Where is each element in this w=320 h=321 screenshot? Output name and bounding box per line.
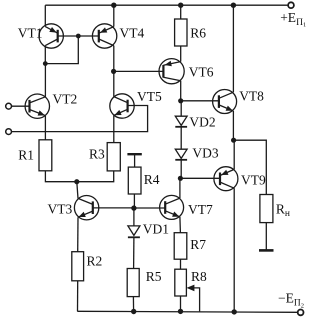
svg-text:VT4: VT4 bbox=[120, 25, 145, 40]
svg-text:VT2: VT2 bbox=[53, 91, 78, 106]
svg-text:VD1: VD1 bbox=[143, 222, 169, 237]
transistor VT4 bbox=[92, 5, 116, 71]
transistor VT3 bbox=[74, 182, 98, 252]
wire VT1 base to VT4 base bbox=[58, 35, 99, 37]
svg-text:Rн: Rн bbox=[276, 202, 290, 220]
wire R7 to R8 bbox=[180, 259, 182, 269]
transistor VT8 bbox=[213, 5, 237, 140]
wire VT4/VT5 node to VT6 base bbox=[114, 70, 164, 72]
resistor R6 bbox=[175, 19, 187, 46]
svg-text:R1: R1 bbox=[18, 148, 34, 163]
node VT3 collector bbox=[74, 179, 79, 184]
wire R5 bottom bbox=[132, 297, 134, 312]
wire R8 bottom to rail bbox=[180, 296, 182, 311]
diode VD3 bbox=[175, 149, 187, 178]
svg-text:VT1: VT1 bbox=[18, 25, 43, 40]
wire bottom rail bbox=[77, 311, 297, 312]
wire R2 bottom to rail bbox=[77, 281, 79, 312]
node VT4 emitter rail bbox=[111, 2, 116, 7]
transistor VT2 bbox=[25, 64, 49, 140]
svg-text:R6: R6 bbox=[190, 25, 206, 40]
svg-text:VT7: VT7 bbox=[188, 202, 213, 217]
terminal +Ep1 bbox=[288, 2, 294, 8]
ground bar RH bbox=[259, 249, 274, 252]
svg-text:VT8: VT8 bbox=[239, 89, 264, 104]
node R6 rail bbox=[178, 2, 183, 7]
svg-text:VD3: VD3 bbox=[192, 145, 218, 160]
resistor R2 bbox=[72, 252, 84, 281]
diode VD1 bbox=[128, 208, 140, 268]
node VD3 cathode bbox=[178, 176, 183, 181]
node output bbox=[231, 138, 236, 143]
svg-text:R7: R7 bbox=[190, 237, 206, 252]
wire input2 to VT5 base loop bbox=[12, 106, 148, 132]
svg-text:+EП1: +EП1 bbox=[280, 10, 306, 29]
wire top rail bbox=[45, 4, 287, 6]
svg-text:R8: R8 bbox=[191, 269, 207, 284]
transistor VT6 bbox=[159, 46, 184, 101]
resistor R1 bbox=[39, 140, 52, 171]
svg-text:R5: R5 bbox=[146, 269, 162, 284]
svg-text:VD2: VD2 bbox=[189, 114, 215, 129]
wire VD3 node to VT9 base bbox=[180, 177, 220, 179]
wire bar to R4 bbox=[134, 154, 136, 167]
common bar above R4 bbox=[127, 153, 141, 155]
transistor VT1 bbox=[39, 5, 63, 63]
svg-text:VT6: VT6 bbox=[189, 64, 214, 79]
wire bias node to VT7 base bbox=[134, 207, 165, 209]
input terminal 2 bbox=[6, 129, 12, 135]
resistor R3 bbox=[107, 143, 120, 171]
transistor VT5 bbox=[110, 71, 134, 142]
wire RH bottom bbox=[265, 223, 267, 251]
node R8 rail bbox=[178, 309, 183, 314]
svg-text:VT9: VT9 bbox=[241, 172, 266, 187]
wire R4 to bias node bbox=[133, 194, 135, 208]
resistor R4 bbox=[128, 167, 141, 194]
wire VT1 collector feedback bbox=[45, 36, 78, 64]
resistor R7 bbox=[174, 233, 187, 260]
svg-text:VT5: VT5 bbox=[137, 89, 162, 104]
svg-text:R2: R2 bbox=[87, 253, 103, 268]
node VT4/VT5 collectors bbox=[111, 69, 116, 74]
terminal -Ep2 bbox=[298, 310, 304, 316]
node VT1 collector bbox=[43, 61, 48, 66]
resistor RH bbox=[260, 195, 273, 223]
input terminal 1 bbox=[6, 103, 12, 109]
resistor R5 bbox=[127, 269, 139, 297]
transistor VT7 bbox=[160, 178, 184, 232]
wire output to RH bbox=[234, 140, 267, 194]
wire R6 top bbox=[180, 5, 182, 19]
resistor R8 bbox=[175, 269, 187, 296]
svg-text:VT3: VT3 bbox=[48, 202, 73, 217]
node VT8 collector rail bbox=[231, 2, 236, 7]
diode VD2 bbox=[175, 101, 187, 149]
node base junction bbox=[76, 34, 81, 39]
node VT6 collector bbox=[178, 98, 183, 103]
wire R1/R3 bottoms bbox=[45, 171, 113, 182]
svg-text:R3: R3 bbox=[89, 147, 105, 162]
node bias bbox=[131, 205, 136, 210]
wire VT6 collector to VT8 base bbox=[181, 100, 219, 102]
svg-text:R4: R4 bbox=[144, 172, 160, 187]
transistor VT9 bbox=[214, 140, 238, 312]
node R5 rail bbox=[131, 309, 136, 314]
wire VT3 base to bias node bbox=[93, 207, 134, 209]
node VT9 collector rail bbox=[232, 309, 237, 314]
R8 wiper arrow bbox=[192, 288, 199, 312]
svg-text:−EП2: −EП2 bbox=[278, 291, 304, 310]
wire input1 to VT2 base bbox=[12, 105, 30, 107]
